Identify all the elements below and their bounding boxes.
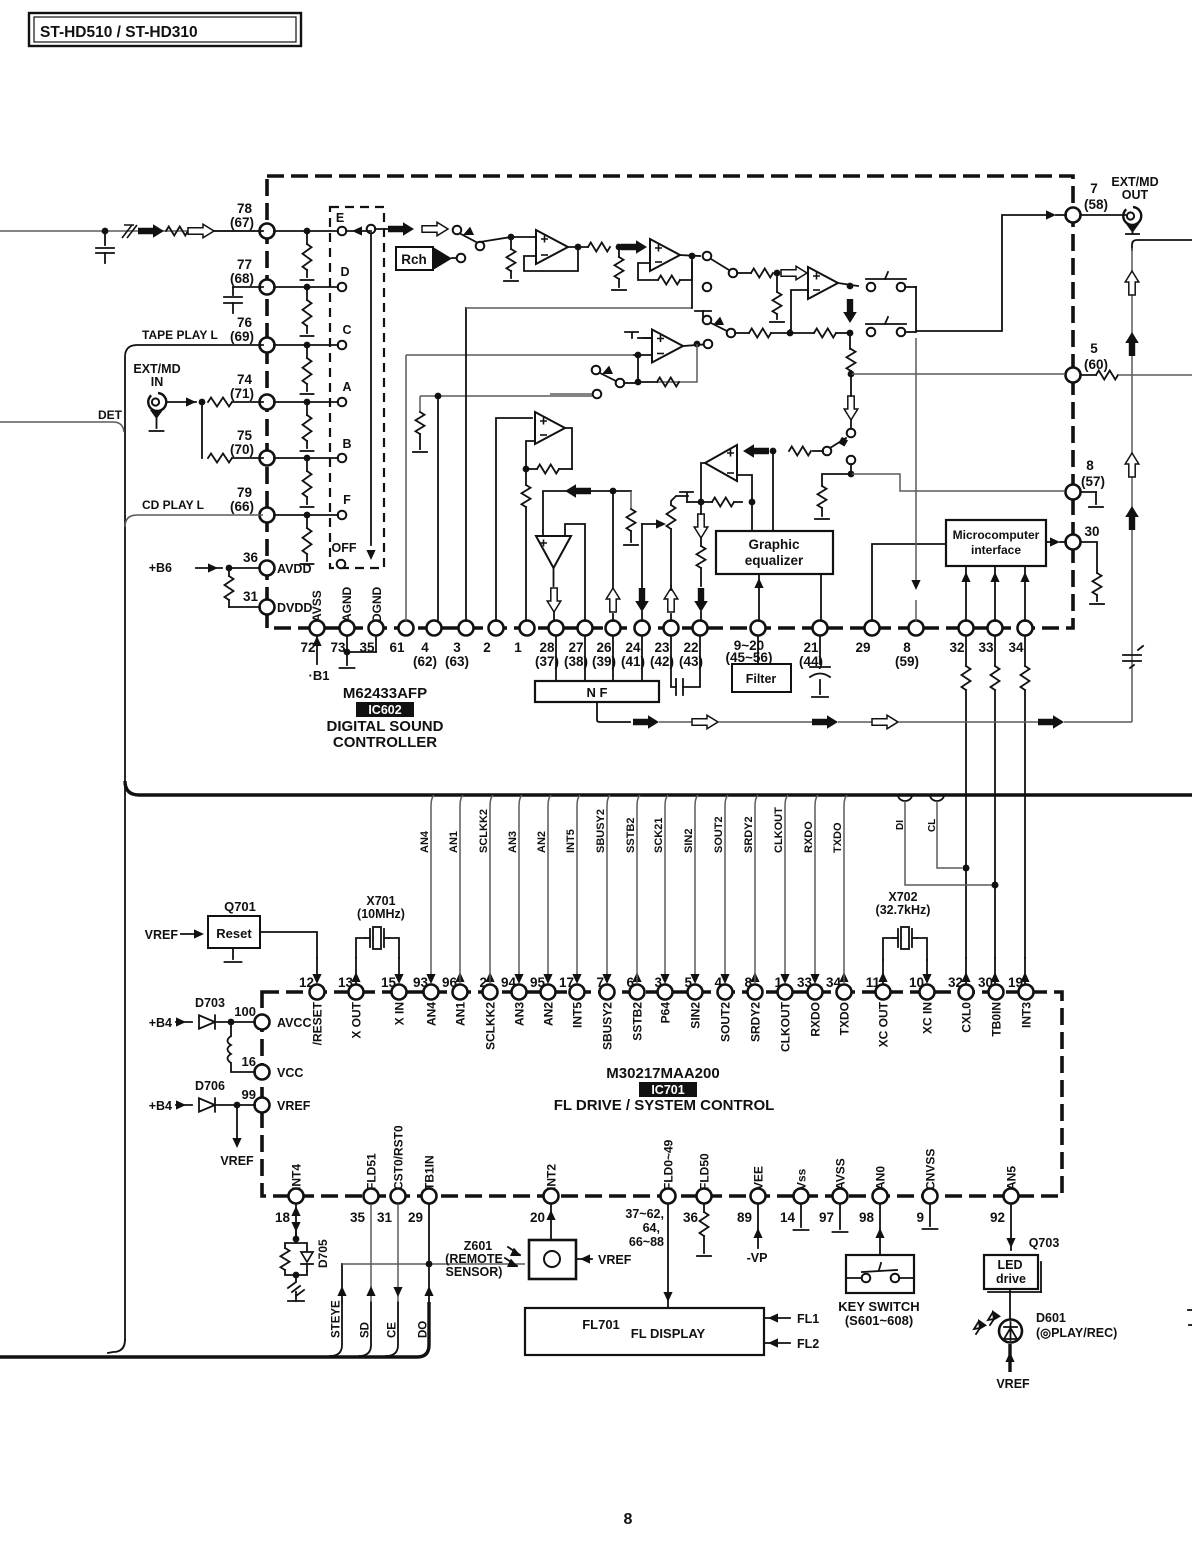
- IC602 pin 3 (63): [445, 621, 474, 670]
- DET wire: [0, 422, 124, 432]
- U2 output: [680, 253, 700, 260]
- svg-text:FL1: FL1: [797, 1312, 819, 1326]
- switch common: [729, 269, 738, 278]
- IC701 pin 30 TB0IN: [978, 975, 1004, 1037]
- svg-text:6: 6: [626, 975, 634, 990]
- svg-text:CD PLAY L: CD PLAY L: [142, 498, 204, 512]
- Rch connector: [396, 247, 465, 270]
- switch lever U2: [711, 259, 729, 270]
- pin3 vertical: [465, 308, 467, 621]
- signal arrow solid: [138, 224, 164, 238]
- svg-text:SCLKK2: SCLKK2: [478, 809, 490, 853]
- svg-text:SBUSY2: SBUSY2: [595, 809, 607, 853]
- svg-text:94: 94: [501, 975, 517, 990]
- svg-text:DET: DET: [98, 408, 123, 422]
- title box ST-HD510 / ST-HD310: [29, 13, 301, 46]
- harness curve STEYE: [330, 1302, 342, 1356]
- signal wire SSTB2: [625, 795, 642, 984]
- svg-text:D601: D601: [1036, 1311, 1066, 1325]
- IC701 pin 29 TB1IN: [408, 1155, 437, 1225]
- svg-text:+B4: +B4: [149, 1016, 172, 1030]
- NF line3: [838, 721, 872, 723]
- svg-text:SENSOR): SENSOR): [446, 1265, 503, 1279]
- net CL: [927, 795, 969, 871]
- svg-text:34: 34: [1008, 640, 1024, 655]
- input coupling capacitor: [96, 228, 114, 263]
- svg-text:EXT/MD: EXT/MD: [133, 362, 180, 376]
- svg-text:SSTB2: SSTB2: [631, 1002, 645, 1041]
- signal wire SIN2: [683, 795, 700, 984]
- junction node D: [304, 284, 311, 291]
- IC602 pin 75 (70): [230, 428, 275, 466]
- svg-text:(◎PLAY/REC): (◎PLAY/REC): [1036, 1326, 1117, 1340]
- B6 resistor: [225, 568, 261, 607]
- wire lower pair join: [905, 331, 916, 333]
- svg-text:(REMOTE: (REMOTE: [445, 1252, 503, 1266]
- svg-text:79: 79: [237, 485, 252, 500]
- svg-text:36: 36: [683, 1210, 699, 1225]
- N F box: [535, 681, 659, 702]
- IC701 pin 16 VCC: [242, 1054, 304, 1080]
- svg-text:13: 13: [338, 975, 354, 990]
- op-amp U6: [705, 445, 737, 481]
- IC701 pin 35 FLD51: [350, 1153, 379, 1225]
- svg-text:32: 32: [948, 975, 963, 990]
- svg-text:FL701: FL701: [582, 1317, 620, 1332]
- IC602 pin 4 (62): [413, 621, 442, 670]
- IC701 pin 36 FLD50: [683, 1153, 712, 1225]
- svg-text:SRDY2: SRDY2: [743, 816, 755, 853]
- CNVSS ground: [923, 1204, 938, 1229]
- node F label: [343, 493, 351, 507]
- svg-text:IC602: IC602: [368, 703, 401, 717]
- svg-text:VREF: VREF: [220, 1154, 254, 1168]
- svg-text:5: 5: [684, 975, 692, 990]
- svg-text:AVSS: AVSS: [310, 590, 324, 622]
- svg-text:20: 20: [530, 1210, 545, 1225]
- NF line: [659, 721, 692, 723]
- Z601 VREF feed: [576, 1253, 632, 1267]
- NF wire: [555, 636, 557, 681]
- net CE: [387, 1204, 403, 1338]
- junction node A: [304, 399, 311, 406]
- IC701 pin 94 AN3: [501, 975, 527, 1026]
- node A label: [342, 380, 351, 394]
- EXT/MD OUT connector: [1081, 207, 1141, 225]
- IC701 pin 3 P64: [654, 975, 672, 1023]
- D706 label: [195, 1079, 225, 1093]
- U7 bias resistor: [770, 273, 784, 322]
- svg-text:IC701: IC701: [651, 1083, 684, 1097]
- IC701 pin 100 AVCC: [234, 1004, 311, 1030]
- IC602 pin 21 (44): [799, 621, 828, 670]
- transistor Q701 Reset box: [208, 916, 260, 948]
- svg-text:N F: N F: [587, 685, 608, 700]
- key switch S601-608: [846, 1255, 914, 1293]
- EXT/MD IN wire: [167, 397, 205, 406]
- svg-text:CONTROLLER: CONTROLLER: [333, 734, 437, 751]
- svg-text:SIN2: SIN2: [683, 829, 695, 853]
- svg-text:SOUT2: SOUT2: [713, 816, 725, 853]
- svg-text:CXL0: CXL0: [960, 1002, 974, 1033]
- svg-text:Q701: Q701: [224, 899, 256, 914]
- junction node C: [304, 342, 311, 349]
- IC602 name text: [327, 685, 444, 751]
- svg-text:AN1: AN1: [454, 1002, 468, 1026]
- svg-text:74: 74: [237, 372, 253, 387]
- svg-text:CE: CE: [387, 1322, 399, 1338]
- svg-text:(60): (60): [1084, 357, 1108, 372]
- svg-text:32: 32: [949, 640, 964, 655]
- svg-text:AN3: AN3: [513, 1002, 527, 1026]
- U6 fb wire: [737, 475, 755, 505]
- svg-text:X702: X702: [888, 890, 917, 904]
- arrow 11: [878, 960, 887, 984]
- svg-text:TXDO: TXDO: [832, 822, 844, 853]
- IC701 pin 19 INT3: [1008, 975, 1034, 1028]
- E row wire: [346, 229, 390, 231]
- out arrow open 1: [1125, 271, 1139, 295]
- svg-text:(62): (62): [413, 654, 437, 669]
- net 34: MI wire: [1020, 566, 1029, 621]
- svg-text:TAPE PLAY L: TAPE PLAY L: [142, 328, 218, 342]
- svg-text:18: 18: [275, 1210, 291, 1225]
- pin5 right resistor: [1081, 371, 1192, 380]
- svg-text:89: 89: [737, 1210, 752, 1225]
- pin26 vertical: [606, 491, 620, 621]
- svg-text:31: 31: [377, 1210, 393, 1225]
- EXT/MD IN connector: [148, 393, 166, 431]
- net STEYE: [331, 1264, 347, 1338]
- svg-text:8: 8: [624, 1511, 633, 1528]
- wire to U7: [737, 272, 751, 274]
- svg-text:28: 28: [539, 640, 555, 655]
- IC602 pin 27 (38): [564, 621, 593, 670]
- svg-text:29: 29: [855, 640, 870, 655]
- pin21 capacitor: [810, 636, 830, 697]
- net GE top2: [751, 502, 753, 531]
- svg-text:AVCC: AVCC: [277, 1016, 312, 1030]
- pin23 arrow: [664, 586, 678, 621]
- heavy arrow E: [388, 222, 414, 236]
- select contact C: [338, 341, 347, 350]
- KEY SWITCH label: [838, 1299, 919, 1328]
- VEE -VP: [747, 1204, 768, 1265]
- svg-text:AN0: AN0: [874, 1166, 888, 1190]
- svg-text:X OUT: X OUT: [350, 1001, 364, 1038]
- switch contact: [453, 226, 462, 235]
- IC701 pin 17 INT5: [559, 975, 585, 1028]
- Vss ground: [794, 1204, 809, 1230]
- svg-text:XC IN: XC IN: [921, 1002, 935, 1034]
- switch lever U6row: [823, 437, 848, 455]
- svg-text:IN: IN: [151, 375, 164, 389]
- out arrow solid 1: [1125, 332, 1139, 356]
- svg-text:37~62,: 37~62,: [625, 1207, 664, 1221]
- svg-text:Microcomputer: Microcomputer: [953, 528, 1040, 542]
- IC602 pin 31 DVDD: [243, 589, 312, 615]
- svg-text:FLD50: FLD50: [698, 1153, 712, 1190]
- bias resistor C: [301, 345, 314, 394]
- IC602 pin 1: [514, 621, 534, 656]
- heavy left arrow U6: [743, 444, 776, 458]
- pin22 heavy arrow: [694, 588, 708, 621]
- Q701 out wire: [260, 932, 317, 958]
- IC602 pin 7 (58): [1066, 181, 1109, 223]
- pin24 vertical: [635, 524, 649, 621]
- open arrow down: [844, 371, 858, 429]
- signal wire RXDO: [803, 795, 820, 984]
- AVSS label: [310, 590, 324, 622]
- bias resistor B: [301, 458, 314, 507]
- svg-text:16: 16: [242, 1054, 256, 1069]
- R chain: [847, 333, 856, 377]
- R 26: [624, 491, 638, 545]
- pin61 vertical: [405, 355, 407, 621]
- net 32: MI wire: [961, 566, 970, 621]
- IC701 pin 93 AN4: [413, 975, 439, 1026]
- bottom harness (heavy): [0, 1302, 429, 1357]
- Z601 labels: [445, 1239, 503, 1279]
- svg-text:VEE: VEE: [752, 1166, 766, 1190]
- IC602 pin 79 (66): [230, 485, 275, 523]
- IC701 pin 92 AN5: [990, 1166, 1019, 1225]
- op-amp U5 (down): [536, 536, 571, 568]
- wire to pin 78: [214, 230, 263, 232]
- crystal X701: [365, 927, 389, 949]
- signal wire INT5: [565, 795, 582, 984]
- wire to U1+: [480, 234, 536, 242]
- wire pin to contact C: [274, 344, 338, 346]
- IC701 pin 96 AN1: [442, 975, 468, 1026]
- node C label: [342, 323, 351, 337]
- U4 output: [565, 428, 572, 469]
- IC602 pin 78 (67): [230, 201, 275, 239]
- IC602 pin 22 (43): [679, 621, 708, 670]
- U1 load resistor: [612, 247, 626, 290]
- Graphic equalizer box: [716, 531, 833, 574]
- main serial bus (heavy): [125, 781, 1192, 795]
- NF output wire: [597, 702, 630, 722]
- signal wire TXDO: [832, 795, 849, 984]
- svg-text:A: A: [342, 380, 351, 394]
- svg-text:96: 96: [442, 975, 458, 990]
- GE bottom wire 9-20: [754, 574, 763, 621]
- svg-text:EXT/MD: EXT/MD: [1111, 175, 1158, 189]
- VREF feed: [145, 928, 204, 942]
- svg-text:SBUSY2: SBUSY2: [601, 1002, 615, 1050]
- op-amp U4: [535, 412, 565, 444]
- svg-text:(57): (57): [1081, 474, 1105, 489]
- svg-text:SSTB2: SSTB2: [625, 818, 637, 853]
- IC602 pin 36 AVDD: [243, 550, 312, 576]
- AN0 wire: [875, 1204, 884, 1255]
- wire pin to contact A: [274, 401, 338, 403]
- svg-text:35: 35: [350, 1210, 366, 1225]
- pin20 wire: [546, 1204, 555, 1240]
- X701 wires: [356, 938, 399, 958]
- svg-text:(70): (70): [230, 442, 254, 457]
- U6 ground flag: [680, 492, 693, 502]
- pin 72 net +B1 arrow: [309, 636, 330, 683]
- arrow 15: [394, 958, 403, 984]
- pot resistor 23: [667, 496, 689, 586]
- svg-text:equalizer: equalizer: [745, 553, 804, 568]
- svg-text:12: 12: [299, 975, 314, 990]
- Filter box: [732, 664, 791, 692]
- signal wire AN1: [448, 795, 465, 984]
- ferrite bead symbol: [122, 225, 137, 238]
- pin1 vertical: [522, 469, 531, 621]
- svg-text:CST0/RST0: CST0/RST0: [392, 1125, 406, 1190]
- svg-text:75: 75: [237, 428, 253, 443]
- svg-text:77: 77: [237, 257, 252, 272]
- svg-text:21: 21: [803, 640, 819, 655]
- IC602 pin 9~20 (45~56): [726, 621, 773, 666]
- svg-text:Rch: Rch: [401, 252, 427, 267]
- net 33: MI wire: [990, 566, 999, 621]
- photo arrows: [505, 1247, 523, 1271]
- Q701 ground: [225, 948, 242, 962]
- IC701 pin 95 AN2: [530, 975, 556, 1026]
- node D label: [340, 265, 349, 279]
- NF wire: [641, 636, 643, 681]
- svg-text:Z601: Z601: [464, 1239, 493, 1253]
- svg-text:99: 99: [242, 1087, 256, 1102]
- svg-text:26: 26: [596, 640, 612, 655]
- svg-text:RXDO: RXDO: [803, 821, 815, 853]
- svg-text:8: 8: [1086, 458, 1094, 473]
- +B6 label: [149, 561, 172, 575]
- U5 input wire: [543, 488, 631, 536]
- junction node B: [304, 455, 311, 462]
- svg-text:-VP: -VP: [747, 1251, 768, 1265]
- svg-text:M30217MAA200: M30217MAA200: [606, 1065, 719, 1082]
- svg-text:FL DRIVE / SYSTEM CONTROL: FL DRIVE / SYSTEM CONTROL: [554, 1097, 775, 1114]
- svg-text:Graphic: Graphic: [748, 537, 800, 552]
- svg-text:19: 19: [1008, 975, 1023, 990]
- svg-text:61: 61: [389, 640, 405, 655]
- IC602 pin 24 (41): [621, 621, 650, 670]
- IC701 M30217MAA200 outline (dashed): [262, 992, 1062, 1196]
- svg-text:TXDO: TXDO: [838, 1002, 852, 1035]
- series resistor: [166, 227, 188, 236]
- svg-text:95: 95: [530, 975, 546, 990]
- wire to right edge: [1132, 240, 1192, 250]
- svg-text:/RESET: /RESET: [311, 1001, 325, 1045]
- IC701 pin 20 INT2: [530, 1164, 559, 1225]
- svg-text:24: 24: [625, 640, 641, 655]
- VREF net down: [220, 1105, 254, 1168]
- DGND label: [370, 586, 384, 622]
- U3 - input: [634, 352, 652, 359]
- svg-text:VREF: VREF: [598, 1253, 632, 1267]
- IC701 pin 32 CXL0: [948, 975, 974, 1033]
- svg-text:VREF: VREF: [996, 1377, 1030, 1391]
- arrow into pin 7: [1046, 210, 1066, 219]
- svg-text:D703: D703: [195, 996, 225, 1010]
- heavy left arrow U5: [565, 484, 591, 498]
- net pin8(57): grey wire: [851, 474, 1065, 491]
- svg-text:CLKOUT: CLKOUT: [779, 1001, 793, 1052]
- AVSS ground: [833, 1204, 848, 1232]
- svg-text:97: 97: [819, 1210, 834, 1225]
- OFF label: [332, 541, 357, 555]
- C 23-22 bridge: [671, 636, 700, 695]
- select contact E: [338, 227, 347, 236]
- svg-text:CLKOUT: CLKOUT: [773, 807, 785, 853]
- wire gndflag: [687, 501, 701, 503]
- svg-text:30: 30: [978, 975, 993, 990]
- svg-text:LED: LED: [998, 1258, 1023, 1272]
- svg-text:8: 8: [744, 975, 752, 990]
- signal wire AN2: [536, 795, 553, 984]
- signal wire AN3: [507, 795, 524, 984]
- U1 bias resistor: [504, 237, 518, 281]
- U3 lower contact wire: [550, 390, 601, 399]
- EXT/MD OUT label: [1111, 175, 1158, 202]
- IC602 pin 8 (57): [1066, 458, 1106, 500]
- NF line2: [718, 721, 812, 723]
- heavy arrow to U2: [621, 240, 647, 254]
- U7 in resistor: [751, 269, 780, 278]
- pin30 load: [1081, 542, 1104, 604]
- signal wire CLKOUT: [773, 795, 790, 984]
- svg-text:17: 17: [559, 975, 574, 990]
- MI left wire pin29: [872, 544, 946, 621]
- signal wire SRDY2: [743, 795, 760, 984]
- switch pair upper: [866, 272, 906, 291]
- series resistor A: [208, 398, 263, 407]
- wire pin to contact E: [274, 230, 338, 232]
- NF arrow open 1: [692, 715, 718, 729]
- svg-text:RXDO: RXDO: [809, 1002, 823, 1037]
- svg-text:(45~56): (45~56): [726, 650, 773, 665]
- svg-text:64,: 64,: [643, 1221, 660, 1235]
- svg-text:11: 11: [866, 975, 881, 990]
- D601 VREF: [996, 1344, 1030, 1391]
- +B4 label 2: [149, 1099, 172, 1113]
- wire upper pair to right: [905, 287, 916, 331]
- NF arrow solid 2: [812, 715, 838, 729]
- arrow 12: [312, 958, 321, 984]
- row2 contact left: [727, 329, 749, 338]
- U3 + wire: [644, 337, 652, 339]
- svg-text:DVDD: DVDD: [277, 601, 312, 615]
- bias resistor A: [301, 402, 314, 451]
- select contact F: [338, 511, 347, 520]
- IC602 pin 30: [1066, 524, 1100, 550]
- svg-text:M62433AFP: M62433AFP: [343, 685, 427, 702]
- U3 switch: [592, 366, 638, 388]
- svg-text:(32.7kHz): (32.7kHz): [876, 903, 931, 917]
- harness curve SD: [359, 1302, 371, 1356]
- IC701 pin 7 SBUSY2: [596, 975, 614, 1050]
- IC701 pin 8 SRDY2: [744, 975, 762, 1042]
- svg-text:22: 22: [683, 640, 698, 655]
- open arrow E: [422, 222, 448, 236]
- D703 label: [195, 996, 225, 1010]
- svg-text:CNVSS: CNVSS: [924, 1149, 938, 1190]
- IC701 name text: [554, 1065, 775, 1114]
- +B6 feed: [196, 563, 260, 572]
- select contact B: [338, 454, 347, 463]
- net 32: resistor: [962, 636, 971, 868]
- svg-text:TB1IN: TB1IN: [423, 1155, 437, 1190]
- net to pin7: wire: [916, 215, 1046, 331]
- node B label: [342, 437, 351, 451]
- svg-text:(10MHz): (10MHz): [357, 907, 405, 921]
